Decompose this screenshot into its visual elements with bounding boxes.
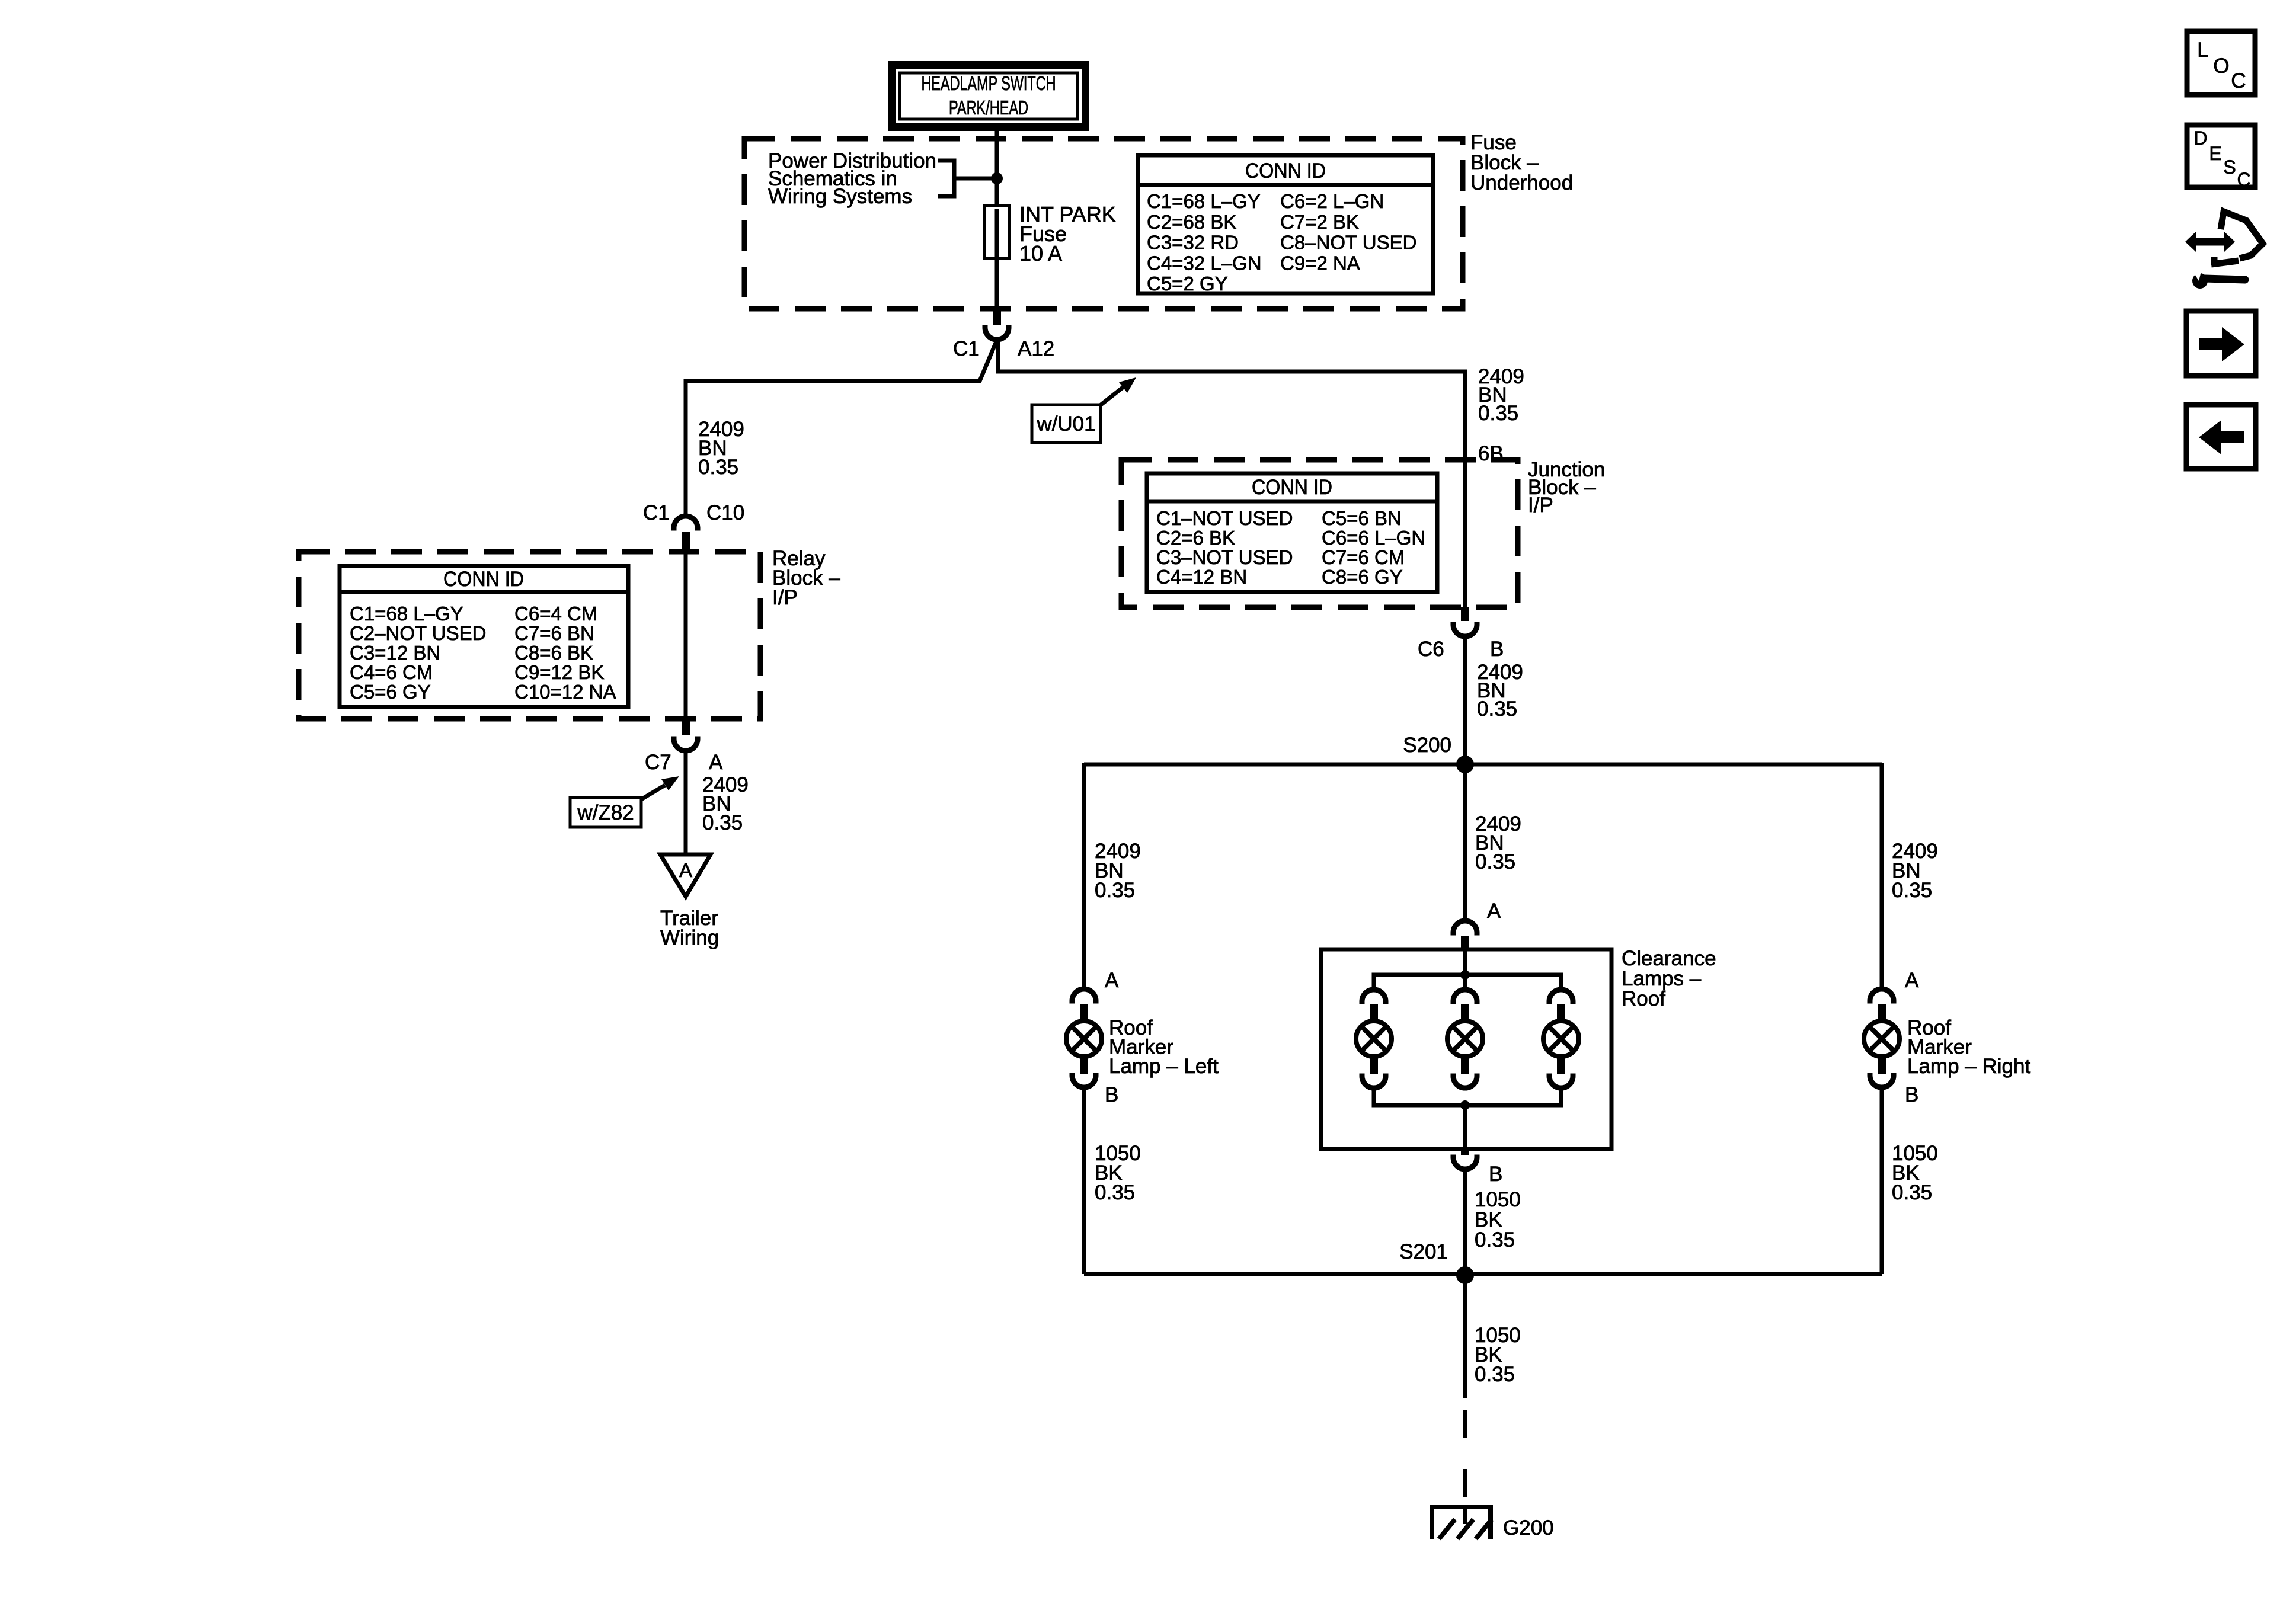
- bracket for note: [938, 161, 954, 196]
- svg-text:C10: C10: [706, 501, 744, 524]
- svg-text:L: L: [2197, 39, 2208, 62]
- label roof marker lamp left: [1109, 1016, 1219, 1078]
- clearance lamp 1: [1362, 990, 1386, 1020]
- icon LOC box: [2187, 31, 2255, 95]
- svg-text:Roof: Roof: [1622, 987, 1665, 1010]
- off-page triangle A trailer wiring: [660, 854, 711, 897]
- icon previous-page arrow box: [2186, 405, 2256, 469]
- icon schematic-use (arrows + wrench): [2185, 212, 2263, 289]
- lamp roof marker left: [1066, 1021, 1102, 1057]
- wire label 2409 BN 0.35 (trailer): [702, 773, 749, 834]
- svg-text:CONN ID: CONN ID: [443, 568, 524, 591]
- CONN ID table junction block: [1147, 473, 1437, 592]
- svg-text:B: B: [1905, 1083, 1918, 1106]
- svg-text:0.35: 0.35: [1095, 879, 1135, 902]
- svg-text:Wiring Systems: Wiring Systems: [768, 185, 912, 208]
- svg-text:0.35: 0.35: [1478, 402, 1518, 425]
- svg-text:C6=4 CM: C6=4 CM: [514, 603, 597, 625]
- clearance lamps roof box: [1321, 949, 1611, 1149]
- svg-text:C8=6 GY: C8=6 GY: [1322, 566, 1403, 588]
- svg-text:C6=6 L–GN: C6=6 L–GN: [1322, 527, 1425, 549]
- svg-text:C8=6 BK: C8=6 BK: [514, 642, 593, 664]
- splice S200: [1084, 756, 1882, 773]
- svg-text:I/P: I/P: [1528, 494, 1553, 517]
- svg-text:0.35: 0.35: [1477, 697, 1517, 721]
- svg-text:Underhood: Underhood: [1470, 171, 1573, 194]
- svg-text:A: A: [1487, 900, 1501, 923]
- label junction block I/P: [1528, 458, 1605, 517]
- svg-text:C1=68 L–GY: C1=68 L–GY: [1147, 190, 1261, 212]
- svg-text:PARK/HEAD: PARK/HEAD: [949, 97, 1028, 119]
- CONN ID table fuse block underhood: [1138, 155, 1433, 295]
- svg-text:B: B: [1489, 1163, 1502, 1186]
- wire label 2409 BN 0.35 (right lamp): [1892, 840, 1938, 902]
- top bus clearance lamps: [1374, 975, 1561, 990]
- svg-text:O: O: [2213, 55, 2229, 78]
- arrow w/Z82 to wire: [641, 776, 679, 799]
- wire S201 to ground: [1463, 1275, 1467, 1398]
- svg-text:w/U01: w/U01: [1036, 412, 1095, 436]
- junction dot at fuse feed: [991, 172, 1003, 184]
- svg-text:Lamp – Left: Lamp – Left: [1109, 1055, 1219, 1078]
- svg-text:C2=6 BK: C2=6 BK: [1156, 527, 1235, 549]
- wire C7/A to trailer wiring: [684, 753, 688, 854]
- connector C6/B: [1453, 607, 1477, 636]
- svg-text:C8–NOT USED: C8–NOT USED: [1280, 232, 1416, 254]
- svg-text:C5=2 GY: C5=2 GY: [1147, 273, 1228, 295]
- connector A right lamp: [1870, 989, 1894, 1020]
- wire clearance to S201: [1463, 1172, 1467, 1274]
- svg-text:0.35: 0.35: [1475, 1363, 1515, 1386]
- wire to clearance B connector: [1463, 1105, 1467, 1149]
- svg-text:I/P: I/P: [772, 586, 798, 609]
- svg-text:C4=12 BN: C4=12 BN: [1156, 566, 1247, 588]
- svg-text:C7=6 BN: C7=6 BN: [514, 622, 594, 644]
- connector C1/A12: [985, 310, 1009, 340]
- icon next-page arrow box: [2186, 311, 2256, 376]
- wire note bracket to main: [954, 177, 997, 181]
- svg-text:B: B: [1490, 638, 1504, 661]
- arrow w/U01 to wire: [1099, 377, 1136, 406]
- clearance lamp 2: [1463, 975, 1467, 988]
- label roof marker lamp right: [1907, 1016, 2030, 1078]
- wire label 2409 BN 0.35 (left lamp): [1095, 840, 1141, 902]
- svg-text:A: A: [1905, 969, 1919, 992]
- svg-text:C5=6 BN: C5=6 BN: [1322, 507, 1402, 529]
- svg-text:C1: C1: [643, 501, 670, 524]
- clearance lamp 3: [1549, 990, 1573, 1020]
- svg-text:C7=2 BK: C7=2 BK: [1280, 211, 1359, 233]
- wire label 1050 BK 0.35 (ground): [1475, 1324, 1521, 1386]
- wire fuse to connector C1/A12: [995, 255, 999, 310]
- svg-text:CONN ID: CONN ID: [1252, 476, 1332, 499]
- wire headlamp to fuse: [995, 131, 999, 208]
- svg-text:0.35: 0.35: [1095, 1181, 1135, 1204]
- svg-text:C1–NOT USED: C1–NOT USED: [1156, 507, 1293, 529]
- svg-text:A: A: [709, 751, 723, 774]
- dashed wire to G200: [1463, 1410, 1467, 1497]
- icon DESC box: [2187, 125, 2255, 190]
- connector A left lamp: [1072, 989, 1096, 1020]
- wire into clearance box: [1463, 949, 1467, 975]
- svg-text:C10=12 NA: C10=12 NA: [514, 681, 616, 703]
- wire label 2409 BN 0.35 (to S200): [1477, 661, 1523, 721]
- svg-text:A12: A12: [1018, 337, 1054, 360]
- svg-text:C3=32 RD: C3=32 RD: [1147, 232, 1239, 254]
- splice S201: [1084, 1266, 1882, 1284]
- svg-text:C3=12 BN: C3=12 BN: [350, 642, 440, 664]
- svg-text:G200: G200: [1503, 1516, 1554, 1539]
- wire label 1050 BK 0.35 (right): [1892, 1142, 1938, 1204]
- flag w/Z82: [570, 798, 641, 827]
- svg-text:C2–NOT USED: C2–NOT USED: [350, 622, 486, 644]
- svg-text:Wiring: Wiring: [660, 926, 719, 949]
- svg-text:E: E: [2209, 143, 2221, 164]
- wire right lamp to S201: [1880, 1090, 1884, 1274]
- junction dot top bus: [1460, 970, 1470, 980]
- junction dot bottom bus: [1460, 1100, 1470, 1110]
- svg-text:C9=12 BK: C9=12 BK: [514, 661, 604, 683]
- svg-text:D: D: [2193, 127, 2207, 149]
- svg-text:C2=68 BK: C2=68 BK: [1147, 211, 1236, 233]
- bottom bus clearance lamps: [1374, 1089, 1561, 1105]
- svg-text:0.35: 0.35: [1475, 1228, 1515, 1251]
- svg-text:C4=32 L–GN: C4=32 L–GN: [1147, 252, 1262, 274]
- label INT PARK fuse: [1019, 202, 1116, 265]
- junction block - I/P dashed box: [1121, 460, 1518, 607]
- svg-text:C1=68 L–GY: C1=68 L–GY: [350, 603, 463, 625]
- svg-text:0.35: 0.35: [1475, 850, 1515, 873]
- svg-text:0.35: 0.35: [702, 811, 743, 834]
- connector C1/C10: [674, 516, 698, 553]
- wire left lamp to S201: [1082, 1090, 1086, 1274]
- label fuse block underhood: [1470, 131, 1573, 194]
- svg-text:CONN ID: CONN ID: [1245, 159, 1326, 183]
- svg-text:w/Z82: w/Z82: [577, 801, 634, 824]
- svg-text:Lamp – Right: Lamp – Right: [1907, 1055, 2030, 1078]
- wire label 2409 BN 0.35 (left branch): [698, 418, 744, 479]
- connector C7/A: [674, 717, 698, 751]
- svg-text:0.35: 0.35: [698, 456, 738, 479]
- wire through relay block: [684, 553, 688, 717]
- connector B left lamp: [1072, 1058, 1096, 1087]
- wire connector to right branch: [998, 341, 1465, 612]
- CONN ID table relay block: [340, 566, 628, 707]
- svg-text:0.35: 0.35: [1892, 879, 1932, 902]
- wire S200 to right roof marker lamp: [1880, 763, 1884, 987]
- fuse block - underhood dashed box: [744, 139, 1463, 309]
- svg-text:C3–NOT USED: C3–NOT USED: [1156, 546, 1293, 568]
- svg-text:HEADLAMP SWITCH: HEADLAMP SWITCH: [922, 72, 1056, 94]
- svg-text:S: S: [2223, 156, 2236, 178]
- wire label 2409 BN 0.35 (clearance): [1475, 812, 1521, 873]
- connector A clearance: [1453, 921, 1477, 950]
- svg-text:C7: C7: [645, 751, 671, 774]
- svg-text:C6: C6: [1418, 638, 1444, 661]
- wire label 1050 BK 0.35 (left): [1095, 1142, 1141, 1204]
- wire C6/B to S200: [1463, 639, 1467, 764]
- svg-text:C7=6 CM: C7=6 CM: [1322, 546, 1405, 568]
- svg-text:C6=2 L–GN: C6=2 L–GN: [1280, 190, 1384, 212]
- wire S200 to clearance lamps: [1463, 764, 1467, 919]
- connector B clearance: [1453, 1147, 1477, 1169]
- wire label 1050 BK 0.35 (clearance): [1475, 1188, 1521, 1251]
- svg-text:B: B: [1105, 1083, 1118, 1106]
- fuse F INT PARK 10A: [984, 206, 1009, 258]
- label trailer wiring: [660, 907, 719, 949]
- wire connector to left branch (diagonal): [686, 340, 997, 514]
- svg-text:C9=2 NA: C9=2 NA: [1280, 252, 1360, 274]
- label clearance lamps roof: [1622, 947, 1716, 1010]
- ground G200 symbol: [1430, 1507, 1493, 1539]
- lamp roof marker right: [1864, 1021, 1900, 1057]
- wire S200 to left roof marker lamp: [1082, 763, 1086, 987]
- svg-text:C5=6 GY: C5=6 GY: [350, 681, 431, 703]
- svg-text:C4=6 CM: C4=6 CM: [350, 661, 433, 683]
- svg-text:A: A: [1105, 969, 1119, 992]
- label relay block I/P: [772, 547, 840, 609]
- note power distribution schematics: [768, 149, 936, 208]
- svg-text:S200: S200: [1403, 734, 1451, 757]
- svg-text:C: C: [2231, 69, 2246, 92]
- svg-text:A: A: [679, 859, 692, 881]
- svg-text:0.35: 0.35: [1892, 1181, 1932, 1204]
- svg-text:C1: C1: [953, 337, 980, 360]
- connector B right lamp: [1870, 1058, 1894, 1087]
- svg-text:C: C: [2237, 169, 2250, 190]
- svg-text:10 A: 10 A: [1019, 241, 1062, 265]
- svg-text:S201: S201: [1399, 1240, 1448, 1263]
- headlamp switch box: [892, 65, 1086, 127]
- relay block - I/P dashed box: [299, 552, 760, 719]
- wire label 2409 BN 0.35 (right branch): [1478, 365, 1524, 425]
- flag w/U01: [1032, 405, 1101, 443]
